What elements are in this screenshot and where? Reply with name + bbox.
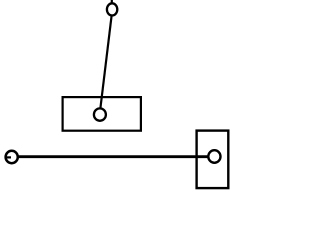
node D (pin circle inside U2) xyxy=(208,150,220,163)
component box U2 xyxy=(197,131,229,189)
component box U1 xyxy=(63,97,141,131)
wire stub above node A xyxy=(111,0,113,5)
node A (top terminal circle) xyxy=(107,3,117,15)
node B (pin circle inside U1) xyxy=(94,108,106,120)
wire from node C to node D xyxy=(11,155,208,158)
wire from node A to node B xyxy=(100,14,112,109)
node C (left terminal circle) xyxy=(6,151,18,163)
wire stub inside node C xyxy=(7,156,11,158)
